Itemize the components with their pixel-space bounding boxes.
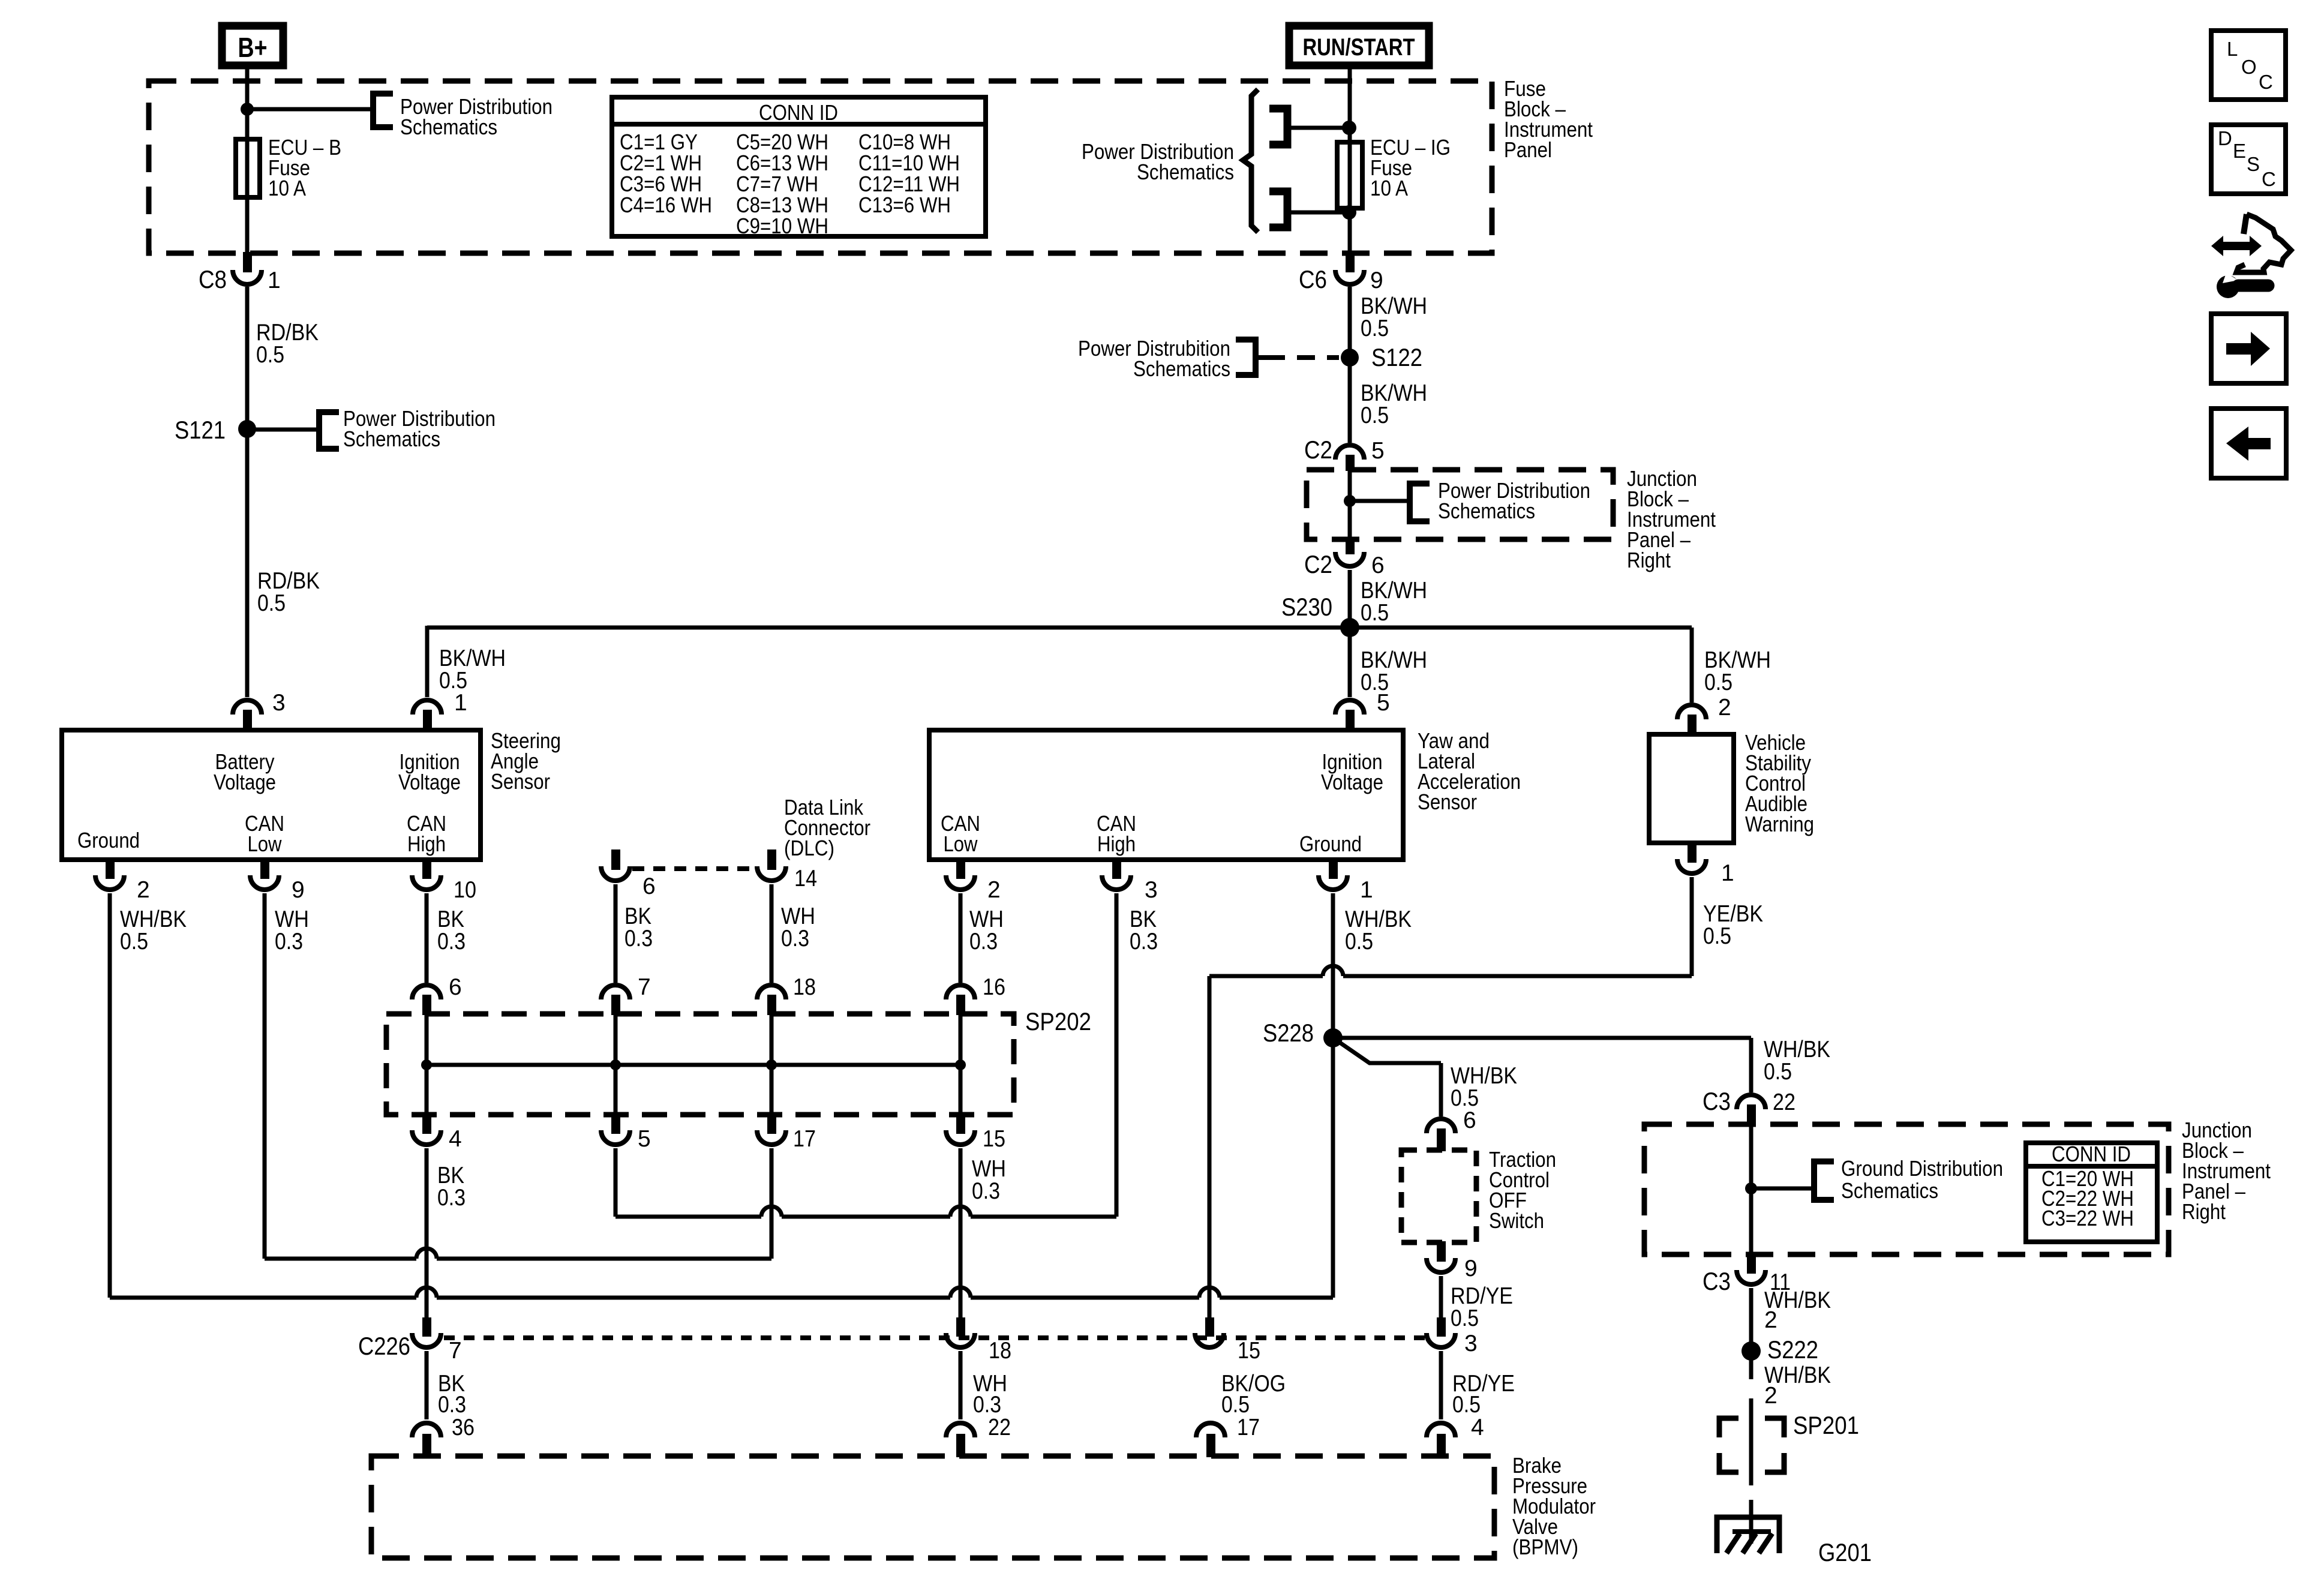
svg-text:C226: C226 [358,1332,410,1360]
svg-text:S: S [2247,153,2260,175]
svg-text:0.5: 0.5 [1361,600,1389,626]
svg-text:0.3: 0.3 [1130,929,1158,954]
svg-text:6: 6 [1371,553,1385,578]
svg-text:0.3: 0.3 [624,926,653,951]
svg-text:C8: C8 [199,265,227,293]
svg-text:C3: C3 [1703,1267,1731,1295]
svg-text:36: 36 [452,1415,475,1440]
svg-text:22: 22 [988,1415,1011,1440]
svg-text:Schematics: Schematics [1841,1178,1938,1203]
svg-text:5: 5 [1377,690,1390,716]
svg-text:(BPMV): (BPMV) [1512,1535,1578,1559]
svg-text:6: 6 [642,873,656,899]
svg-text:C2: C2 [1304,550,1332,578]
svg-text:(DLC): (DLC) [784,836,834,860]
svg-text:14: 14 [794,866,817,891]
svg-text:0.5: 0.5 [1361,403,1389,428]
svg-text:17: 17 [1237,1415,1260,1440]
svg-text:1: 1 [1360,877,1373,903]
svg-text:C13=6 WH: C13=6 WH [858,193,951,217]
svg-text:0.3: 0.3 [275,929,303,954]
svg-text:10 A: 10 A [268,176,306,200]
svg-text:SP201: SP201 [1793,1411,1859,1439]
svg-text:Schematics: Schematics [1438,499,1535,523]
svg-text:0.3: 0.3 [437,929,466,954]
svg-text:S228: S228 [1263,1019,1314,1047]
svg-text:10 A: 10 A [1370,176,1408,200]
svg-text:1: 1 [268,268,281,293]
svg-text:0.5: 0.5 [1345,929,1373,954]
svg-text:9: 9 [292,877,305,903]
svg-text:C4=16 WH: C4=16 WH [620,193,712,217]
svg-text:18: 18 [989,1338,1011,1364]
svg-text:C2: C2 [1304,436,1332,464]
svg-text:Low: Low [248,831,283,856]
svg-text:Schematics: Schematics [1133,356,1230,381]
svg-text:Voltage: Voltage [398,770,461,794]
svg-text:5: 5 [638,1126,651,1152]
svg-text:C: C [2262,168,2276,190]
svg-text:High: High [1097,831,1136,856]
svg-text:C9=10 WH: C9=10 WH [736,214,828,238]
svg-text:G201: G201 [1818,1538,1872,1566]
svg-text:15: 15 [1238,1338,1260,1364]
svg-text:S122: S122 [1371,343,1422,371]
svg-text:B+: B+ [238,32,268,63]
svg-text:Sensor: Sensor [1418,789,1477,814]
svg-text:Schematics: Schematics [343,427,440,451]
svg-text:Sensor: Sensor [491,769,550,794]
svg-text:0.5: 0.5 [1452,1392,1481,1418]
svg-text:C3: C3 [1703,1087,1731,1115]
svg-text:0.5: 0.5 [1451,1305,1479,1331]
svg-text:Warning: Warning [1745,812,1814,836]
svg-text:22: 22 [1773,1089,1795,1115]
svg-text:4: 4 [1471,1415,1484,1440]
svg-text:0.3: 0.3 [781,926,809,951]
svg-text:Ground Distribution: Ground Distribution [1841,1156,2003,1181]
svg-text:1: 1 [1721,860,1734,886]
svg-text:2: 2 [1718,695,1731,721]
svg-text:Low: Low [944,831,978,856]
svg-text:0.3: 0.3 [437,1185,466,1211]
svg-text:Ground: Ground [77,828,140,852]
svg-text:S121: S121 [175,416,226,444]
svg-text:D: D [2218,127,2232,149]
svg-text:L: L [2227,38,2238,60]
svg-text:C: C [2259,71,2273,93]
svg-text:9: 9 [1464,1256,1478,1281]
svg-text:0.5: 0.5 [257,590,286,616]
svg-text:Voltage: Voltage [214,770,276,794]
svg-text:E: E [2233,140,2246,162]
svg-text:15: 15 [983,1126,1005,1152]
svg-text:3: 3 [272,690,286,716]
svg-text:2: 2 [987,877,1001,903]
svg-text:0.3: 0.3 [972,1178,1000,1204]
svg-text:RUN/START: RUN/START [1303,34,1415,61]
svg-text:CONN ID: CONN ID [759,100,838,125]
svg-text:0.5: 0.5 [1221,1392,1250,1418]
svg-text:0.5: 0.5 [1704,670,1733,695]
svg-text:0.5: 0.5 [120,929,148,954]
svg-text:0.5: 0.5 [1703,923,1731,949]
svg-text:CONN ID: CONN ID [2052,1142,2131,1166]
svg-text:Right: Right [1627,548,1671,572]
svg-text:3: 3 [1145,877,1158,903]
svg-text:Ground: Ground [1299,831,1362,856]
svg-text:Voltage: Voltage [1321,770,1383,794]
svg-text:7: 7 [449,1338,462,1364]
svg-text:0.5: 0.5 [1764,1059,1792,1085]
svg-text:Panel: Panel [1504,137,1552,162]
svg-text:6: 6 [449,974,462,1000]
svg-text:10: 10 [454,877,476,903]
svg-text:1: 1 [454,690,467,716]
svg-text:0.5: 0.5 [1361,316,1389,341]
svg-text:Right: Right [2182,1199,2226,1224]
svg-text:4: 4 [449,1126,462,1152]
svg-text:0.5: 0.5 [256,342,284,368]
svg-text:6: 6 [1463,1107,1476,1133]
svg-text:0.3: 0.3 [438,1392,466,1418]
svg-text:O: O [2241,56,2257,78]
svg-text:17: 17 [793,1126,816,1152]
svg-text:Switch: Switch [1489,1208,1544,1233]
svg-text:2: 2 [1764,1383,1777,1409]
svg-text:5: 5 [1371,438,1385,464]
svg-text:High: High [407,831,446,856]
svg-text:7: 7 [638,974,651,1000]
svg-text:3: 3 [1464,1331,1478,1356]
svg-text:C3=22 WH: C3=22 WH [2041,1206,2134,1230]
svg-text:Schematics: Schematics [400,115,497,139]
svg-text:S230: S230 [1281,593,1332,621]
svg-text:9: 9 [1370,268,1383,293]
svg-text:2: 2 [1764,1307,1777,1333]
svg-text:2: 2 [137,877,150,903]
svg-text:0.3: 0.3 [973,1392,1001,1418]
svg-text:S222: S222 [1767,1335,1818,1364]
svg-text:SP202: SP202 [1025,1007,1091,1035]
svg-text:Schematics: Schematics [1137,160,1234,184]
svg-text:16: 16 [983,974,1005,1000]
svg-text:C6: C6 [1299,265,1327,293]
svg-text:0.3: 0.3 [969,929,998,954]
svg-text:18: 18 [793,974,816,1000]
